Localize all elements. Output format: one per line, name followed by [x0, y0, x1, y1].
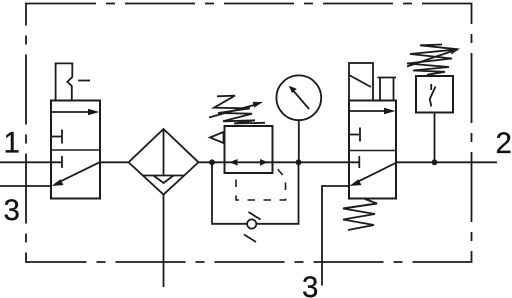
svg-text:1: 1 [4, 127, 20, 160]
junction node at pressure switch tap [432, 159, 438, 165]
enclosure dash-dot border [26, 4, 472, 263]
V2 top position flow arrow [350, 108, 396, 115]
filter F1 with water separator [129, 129, 199, 195]
V2 bottom position blocked port T [358, 156, 360, 168]
V1 detent dash [78, 80, 90, 82]
shut-off valve V1 body [51, 101, 100, 199]
wire: port 3 line lower-left [0, 185, 51, 187]
wire: port 1 line into valve V1 with blocked stub [0, 161, 62, 163]
svg-text:3: 3 [302, 271, 318, 298]
R1 relief triangle [210, 132, 224, 143]
filter drain line [163, 195, 165, 288]
R1 adjustment spring [214, 96, 265, 124]
wire: filter F1 to regulator R1 to valve V2 stub [199, 161, 360, 163]
V2 port 3 exhaust wire [322, 186, 349, 286]
V1 bottom position exhaust path arrow [52, 162, 100, 186]
svg-text:3: 3 [4, 194, 20, 227]
pressure gauge G1 [276, 75, 321, 120]
junction node at regulator inlet [209, 159, 215, 165]
V1 bottom position blocked port T [61, 156, 63, 168]
V1 top position flow arrow [52, 109, 100, 116]
R1 flow arrows (bidirectional) [230, 159, 269, 166]
R1 adjustment arrow [209, 102, 263, 118]
PS1 spring [407, 45, 458, 75]
R1 pilot line (dashed) [236, 164, 286, 201]
V2 bottom position exhaust path arrow [350, 163, 396, 186]
svg-text:2: 2 [496, 127, 512, 160]
regulator R1 body [225, 126, 273, 173]
V1 manual detent actuator [55, 63, 73, 100]
junction node at gauge tap [296, 159, 302, 165]
wire: valve V1 to filter F1 [100, 161, 129, 163]
PS1 adjustment arrow [407, 49, 460, 67]
pressure switch PS1 body [416, 76, 453, 113]
pressure switch PS1 stem [434, 113, 436, 163]
bypass loop wire [212, 162, 299, 224]
V2 top position blocked port T [349, 128, 360, 142]
pressure gauge G1 stem [298, 120, 300, 162]
solenoid pilot valve V2 body [349, 101, 396, 199]
V2 solenoid coil [349, 63, 373, 101]
wire: valve V2 to port 2 [396, 161, 497, 163]
V2 return spring [343, 199, 377, 230]
check valve CV1 [244, 212, 261, 242]
V1 top position blocked port T [51, 130, 62, 144]
V2 manual override cap [378, 78, 397, 101]
